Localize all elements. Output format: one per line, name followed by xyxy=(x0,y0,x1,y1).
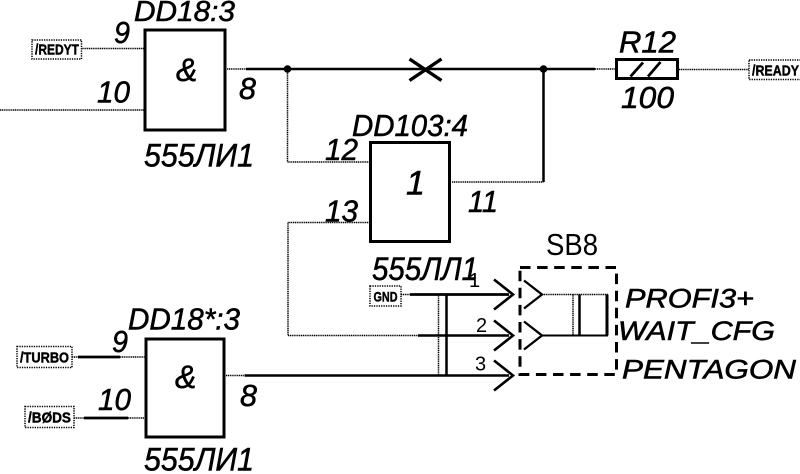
wire /TURBO to DD18*:3 pin 9 xyxy=(72,356,145,358)
or-gate DD103:4 xyxy=(371,143,450,242)
svg-text:PENTAGON: PENTAGON xyxy=(622,355,797,385)
svg-text:1: 1 xyxy=(469,270,480,292)
net label /TURBO xyxy=(17,347,72,368)
svg-text:WAIT_CFG: WAIT_CFG xyxy=(618,316,775,346)
wire /REDYT to DD18:3 pin 9 xyxy=(82,48,145,50)
svg-text:/READY: /READY xyxy=(752,63,799,80)
wire junction A to DD103:4 pin 12 xyxy=(288,69,371,162)
svg-text:GND: GND xyxy=(374,289,398,305)
wire R12 to /READY xyxy=(679,69,749,71)
wire GND to SB8 pin 1 xyxy=(401,294,509,296)
svg-text:/REDYT: /REDYT xyxy=(35,42,79,59)
resistor R12 xyxy=(617,60,678,79)
svg-text:&: & xyxy=(175,359,196,395)
svg-text:1: 1 xyxy=(406,165,425,203)
junction node B xyxy=(540,65,548,73)
svg-text:100: 100 xyxy=(621,80,674,115)
switch SB8 dashed box xyxy=(520,268,617,375)
svg-text:9: 9 xyxy=(112,324,128,359)
svg-text:3: 3 xyxy=(475,354,486,376)
SB8 pin 2 arrow xyxy=(494,321,513,351)
junction node A xyxy=(284,65,292,73)
svg-text:2: 2 xyxy=(476,315,487,337)
SB8 contact chevron 1 xyxy=(524,281,542,309)
SB8 pin 1 arrow xyxy=(494,280,513,310)
wire DD18*:3 pin 8 to SB8 pin 3 xyxy=(226,375,509,377)
net label /B0DS xyxy=(25,407,74,428)
and-gate DD18:3 xyxy=(145,30,225,130)
and-gate DD18*:3 xyxy=(146,339,224,437)
svg-text:DD18*:3: DD18*:3 xyxy=(128,302,240,337)
svg-text:10: 10 xyxy=(98,382,131,417)
wire DD18:3 pin 8 to R12 xyxy=(227,68,616,70)
svg-text:11: 11 xyxy=(468,184,498,219)
svg-text:PROFI3+: PROFI3+ xyxy=(625,284,754,314)
SB8 pin 3 arrow xyxy=(494,361,513,391)
svg-text:9: 9 xyxy=(114,15,130,50)
jumper slider xyxy=(542,295,608,336)
bus crossing vertical (dotted) xyxy=(438,295,440,376)
wire DD103:4 pin 13 to SB8 pin 2 xyxy=(288,223,509,336)
svg-text:555ЛИ1: 555ЛИ1 xyxy=(144,442,254,474)
svg-text:8: 8 xyxy=(240,378,258,413)
svg-text:&: & xyxy=(176,52,197,88)
bus crossing vertical (solid) xyxy=(445,295,448,376)
svg-text:555ЛЛ1: 555ЛЛ1 xyxy=(372,251,478,287)
wire DD103:4 pin 11 to junction B xyxy=(452,69,544,182)
svg-text:SB8: SB8 xyxy=(546,227,598,262)
svg-text:/BØDS: /BØDS xyxy=(28,410,71,427)
net label /READY xyxy=(749,60,800,80)
no-connect cross xyxy=(410,59,442,81)
svg-text:555ЛИ1: 555ЛИ1 xyxy=(144,138,254,174)
svg-text:/TURBO: /TURBO xyxy=(20,350,69,367)
net label GND xyxy=(370,286,401,306)
wire /B0DS to DD18*:3 pin 10 xyxy=(74,417,145,419)
svg-text:DD18:3: DD18:3 xyxy=(134,0,235,28)
SB8 contact chevron 2 xyxy=(524,322,542,350)
wire to DD18:3 pin 10 xyxy=(0,109,144,111)
net label /REDYT xyxy=(32,40,82,59)
svg-text:10: 10 xyxy=(97,75,130,110)
svg-text:R12: R12 xyxy=(619,25,676,60)
svg-text:DD103:4: DD103:4 xyxy=(352,108,468,143)
svg-text:8: 8 xyxy=(239,71,257,106)
